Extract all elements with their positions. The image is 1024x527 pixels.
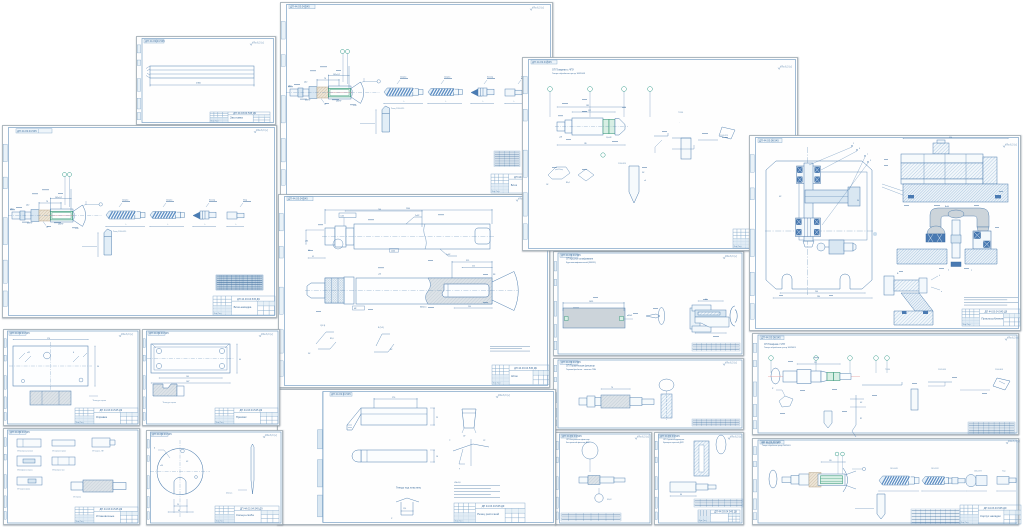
green insert bbox=[329, 88, 351, 97]
svg-text:Гнездо под пластину: Гнездо под пластину bbox=[396, 486, 422, 490]
svg-text:ОП Контрольная фиксатор: ОП Контрольная фиксатор bbox=[566, 438, 590, 441]
svg-text:Ra 6,3 (√): Ra 6,3 (√) bbox=[726, 361, 737, 364]
S5 parting tool bbox=[629, 166, 639, 203]
cone upper bbox=[351, 82, 361, 89]
upper shaft body bbox=[325, 224, 490, 249]
S7c left margin boxes bbox=[4, 438, 6, 519]
S7a plate bbox=[13, 346, 88, 386]
svg-text:а: а bbox=[971, 270, 972, 272]
svg-text:Ø0,02: Ø0,02 bbox=[607, 499, 612, 501]
svg-text:Ra 6,3 (√): Ra 6,3 (√) bbox=[1006, 143, 1017, 146]
svg-text:Фрезерно-отрезной ДИП: Фрезерно-отрезной ДИП bbox=[663, 441, 684, 444]
leader bbox=[82, 246, 97, 248]
svg-text:Термообработка - закалка ТВЧ: Термообработка - закалка ТВЧ bbox=[566, 369, 597, 371]
stop bushing bbox=[505, 89, 522, 96]
S4 left dim bbox=[305, 230, 307, 244]
S5 tool sketch 2 bbox=[578, 169, 594, 181]
S3 corner stamp bbox=[289, 5, 315, 9]
svg-text:Резец расточной: Резец расточной bbox=[477, 512, 499, 516]
S10 green seg2 bbox=[834, 373, 841, 381]
S8 finish mark bbox=[496, 394, 510, 398]
sheet S11 paper bbox=[752, 438, 1019, 525]
S6 bottom bearing block bbox=[796, 218, 821, 237]
svg-text:16°: 16° bbox=[546, 184, 549, 186]
svg-text:ОП Сверлильн прихват: ОП Сверлильн прихват bbox=[52, 451, 66, 453]
S5 finish mark bbox=[778, 65, 792, 69]
S11 drill 2 bbox=[922, 477, 952, 485]
cone lower bbox=[351, 97, 361, 103]
S11 dim bbox=[821, 461, 845, 463]
svg-text:б: б bbox=[948, 270, 949, 272]
S7c title block bbox=[75, 507, 138, 523]
dim sleeve bbox=[39, 202, 61, 204]
svg-text:Ra 6,3 (√): Ra 6,3 (√) bbox=[262, 333, 273, 336]
svg-text:70: 70 bbox=[324, 78, 326, 80]
balloon 1 bbox=[340, 49, 344, 53]
S5 cone end bbox=[615, 119, 625, 136]
dimension text clutter bbox=[308, 215, 488, 312]
S5 dim1 bbox=[572, 111, 615, 113]
S10 dim bbox=[797, 363, 840, 365]
svg-text:1х45°: 1х45° bbox=[446, 254, 451, 256]
svg-text:ДП 44.03.04.545: ДП 44.03.04.545 bbox=[660, 434, 680, 438]
svg-text:Ra 6,3 (√): Ra 6,3 (√) bbox=[1008, 336, 1019, 339]
S10 corner stamp bbox=[760, 336, 784, 340]
S11 parting tool bbox=[877, 494, 885, 519]
S10 sketch vertical bbox=[824, 411, 832, 428]
S11 sleeve bbox=[818, 474, 845, 486]
svg-text:ОП Отрезной фрезеров.: ОП Отрезной фрезеров. bbox=[663, 438, 685, 441]
S9b finish mark bbox=[723, 361, 737, 365]
svg-text:2102-0055: 2102-0055 bbox=[938, 369, 946, 371]
S10 shaft bbox=[783, 370, 827, 384]
svg-text:Сверло: Сверло bbox=[166, 199, 172, 201]
S4 dim extra bbox=[345, 210, 422, 212]
S7d finish mark bbox=[263, 434, 277, 438]
svg-text:Сверло: Сверло bbox=[444, 76, 450, 78]
svg-text:М24х1,5: М24х1,5 bbox=[420, 307, 427, 309]
S9b frame bbox=[558, 360, 742, 428]
S5 tool sketch 1 bbox=[548, 167, 570, 179]
socket section (gray) bbox=[426, 278, 493, 304]
cut bar bbox=[670, 482, 716, 492]
S8 dim h bbox=[433, 408, 435, 425]
S9d dim bbox=[670, 495, 696, 497]
S3 finish mark bbox=[530, 6, 544, 10]
S4 frame bbox=[285, 197, 548, 386]
svg-text:⌀56: ⌀56 bbox=[378, 273, 381, 276]
S7d needle bbox=[251, 444, 254, 494]
S10 toolpath 1 bbox=[862, 382, 902, 385]
svg-text:105±0,2: 105±0,2 bbox=[333, 74, 340, 76]
fixture shaft bbox=[579, 395, 654, 408]
feed arrow bbox=[97, 233, 99, 257]
S11 stop part bbox=[997, 477, 1016, 485]
svg-text:Ra 6,3 (√): Ra 6,3 (√) bbox=[499, 394, 510, 397]
svg-text:185: 185 bbox=[586, 105, 589, 107]
balloon 1 bbox=[62, 172, 66, 176]
S5 frame bbox=[529, 60, 796, 249]
svg-text:Ra 6,3 (√): Ra 6,3 (√) bbox=[533, 6, 544, 9]
sleeve bbox=[51, 209, 74, 222]
svg-text:Изм Лист: Изм Лист bbox=[493, 383, 501, 385]
svg-text:Круглошлифовальный (3М151): Круглошлифовальный (3М151) bbox=[566, 261, 596, 264]
svg-text:60°: 60° bbox=[860, 402, 863, 404]
S7c part b2 bbox=[52, 457, 75, 465]
svg-text:ДП 44.03.04.545: ДП 44.03.04.545 bbox=[532, 60, 552, 64]
S9a operations table bbox=[692, 343, 740, 351]
svg-text:Изм Лист: Изм Лист bbox=[961, 522, 969, 524]
S4 left margin boxes bbox=[279, 213, 283, 376]
S9a finish mark bbox=[723, 255, 737, 259]
S8 seat detail bbox=[396, 498, 419, 502]
dimension text clutter bbox=[780, 358, 987, 414]
sheet S9b paper bbox=[553, 358, 744, 430]
datum circle bbox=[99, 203, 102, 206]
svg-text:2100-0409: 2100-0409 bbox=[995, 369, 1003, 371]
S9d left margin boxes bbox=[655, 441, 657, 519]
S11 chuck ellipse bbox=[769, 470, 777, 488]
S6 plate dim bbox=[780, 292, 865, 294]
S8 insert plate bbox=[462, 409, 476, 428]
S6 stem bottom bbox=[951, 262, 961, 267]
centre rest bbox=[646, 314, 660, 318]
drill 2 (spiral flutes) bbox=[150, 211, 185, 218]
S7a title block bbox=[75, 408, 138, 424]
svg-text:Оправка: Оправка bbox=[96, 415, 108, 419]
S11 chuck steps bbox=[782, 474, 809, 485]
svg-text:ДП 44.03.04.545: ДП 44.03.04.545 bbox=[145, 39, 165, 43]
svg-text:Ra 6,3 (√): Ra 6,3 (√) bbox=[253, 41, 264, 44]
sheet S6 paper bbox=[749, 135, 1021, 331]
S2 frame bbox=[9, 128, 275, 316]
S6 fork funnel bbox=[977, 227, 989, 238]
S10 red centreline bbox=[768, 376, 860, 378]
sheet S7c paper bbox=[3, 428, 140, 525]
svg-text:Сверло: Сверло bbox=[122, 199, 128, 201]
svg-text:ДП 44.03.04.545: ДП 44.03.04.545 bbox=[562, 434, 582, 438]
S7d leader bbox=[158, 450, 170, 458]
svg-text:ОП Токарная с ЧПУ: ОП Токарная с ЧПУ bbox=[552, 69, 574, 72]
S7c long shaft bbox=[71, 480, 126, 492]
S11 tan clamp bbox=[809, 473, 821, 488]
sheet S7d paper bbox=[146, 430, 283, 525]
tolerance frame bbox=[339, 213, 356, 218]
svg-text:60: 60 bbox=[239, 359, 241, 361]
svg-text:ОП Отрезная: ОП Отрезная bbox=[73, 497, 81, 499]
green wheel marks bbox=[565, 317, 569, 321]
drill 2 (spiral flutes) bbox=[428, 88, 463, 95]
S11 ball nose tool bbox=[966, 475, 987, 487]
svg-text:2360: 2360 bbox=[196, 83, 202, 85]
S5 corner stamp bbox=[531, 60, 557, 64]
parting tool bbox=[104, 229, 112, 255]
svg-text:12,4: 12,4 bbox=[403, 508, 406, 510]
svg-text:Сверло: Сверло bbox=[400, 76, 406, 78]
S11 cone arc bbox=[843, 468, 848, 492]
svg-text:ДП 44.03.04.545: ДП 44.03.04.545 bbox=[149, 331, 169, 335]
S8 title block bbox=[454, 503, 525, 523]
sheet S8 paper bbox=[277, 389, 556, 525]
S5 datum balloon bbox=[601, 153, 605, 157]
svg-text:1:20: 1:20 bbox=[353, 105, 357, 107]
S1 title block bbox=[210, 112, 270, 123]
svg-text:Блок: Блок bbox=[511, 183, 518, 187]
S6 corner stamp bbox=[758, 138, 782, 142]
S2 overlay operations table bbox=[216, 275, 263, 290]
S5 green segment 1 bbox=[603, 120, 609, 134]
indicator circle bbox=[595, 494, 603, 502]
travel arrow bbox=[150, 226, 184, 228]
S8 dim1 bbox=[374, 398, 417, 400]
S2 title block bbox=[213, 296, 275, 315]
svg-text:А-А: А-А bbox=[945, 205, 949, 208]
S5 toolpath line bbox=[654, 133, 668, 136]
svg-text:ДП 44.03.04.545 Д9: ДП 44.03.04.545 Д9 bbox=[237, 298, 260, 301]
drill 1 (spiral flutes) bbox=[106, 211, 145, 219]
travel arrow bbox=[193, 226, 216, 228]
S6 grease assembly bbox=[817, 243, 825, 251]
S5 balloon 4 bbox=[648, 87, 653, 92]
sheet S1 paper bbox=[136, 36, 276, 125]
S11 frame bbox=[758, 440, 1017, 523]
svg-text:105: 105 bbox=[829, 460, 832, 462]
svg-text:Зенкер: Зенкер bbox=[487, 76, 493, 78]
S10 sketch 1 bbox=[779, 396, 793, 407]
S7c part a3 bbox=[92, 438, 115, 447]
svg-text:R1,6: R1,6 bbox=[330, 338, 334, 340]
S5 workpiece shaft bbox=[557, 118, 603, 135]
svg-text:ДП 44.03.04.545 Д9: ДП 44.03.04.545 Д9 bbox=[482, 505, 505, 508]
svg-text:30: 30 bbox=[857, 200, 859, 202]
S5 tailstock tool bbox=[681, 138, 691, 159]
svg-text:48: 48 bbox=[178, 510, 180, 512]
travel arrow bbox=[505, 103, 522, 105]
svg-text:Упор: Упор bbox=[243, 199, 247, 201]
S6 machine motor bbox=[933, 140, 949, 154]
svg-text:√Ra1,6: √Ra1,6 bbox=[454, 481, 461, 484]
svg-text:2320-2373: 2320-2373 bbox=[974, 471, 982, 473]
S7d note leader bbox=[238, 489, 247, 491]
sheet S9c paper bbox=[555, 432, 652, 525]
svg-text:30°: 30° bbox=[642, 172, 645, 174]
S7a left margin boxes bbox=[4, 339, 6, 420]
S9a dim2 bbox=[698, 300, 723, 302]
balloon leader bbox=[64, 177, 66, 206]
S6 plate dim2 bbox=[773, 297, 872, 299]
svg-text:R0,4: R0,4 bbox=[566, 182, 570, 184]
sheet S2 paper bbox=[2, 125, 277, 318]
svg-text:→: → bbox=[678, 122, 680, 124]
centre hole circle bbox=[333, 239, 343, 249]
svg-text:45°: 45° bbox=[779, 196, 782, 198]
svg-text:280: 280 bbox=[817, 296, 820, 298]
S6 left bearing dome bbox=[927, 226, 945, 234]
sheet S7b paper bbox=[142, 329, 280, 426]
S4 dim socket bbox=[452, 261, 492, 263]
blade ellipse bbox=[716, 435, 726, 454]
S6 top bearing block bbox=[797, 166, 821, 184]
saw blade bar bbox=[694, 441, 709, 476]
svg-text:70: 70 bbox=[611, 387, 613, 389]
svg-text:25: 25 bbox=[436, 417, 438, 419]
sheet S5 paper bbox=[522, 57, 798, 251]
S9c operations table bbox=[561, 513, 621, 521]
reamer bbox=[193, 211, 216, 219]
svg-text:7: 7 bbox=[867, 154, 868, 156]
svg-text:Изм Лист: Изм Лист bbox=[492, 191, 500, 193]
S9d frame bbox=[659, 434, 743, 523]
dim sleeve bbox=[317, 79, 339, 81]
svg-text:Токарн обрабатыв центр 16К20Ф3: Токарн обрабатыв центр 16К20Ф3 bbox=[552, 72, 586, 75]
red centreline bbox=[327, 92, 352, 94]
S7d left margin boxes bbox=[147, 440, 149, 520]
svg-text:I (5:1): I (5:1) bbox=[320, 325, 326, 327]
leader bbox=[360, 123, 375, 125]
svg-text:Изм Лист: Изм Лист bbox=[963, 324, 971, 326]
ground bar (gray) bbox=[563, 308, 625, 328]
svg-text:112: 112 bbox=[588, 110, 591, 112]
svg-text:Токарн обрабатыв центр 16К20Ф3: Токарн обрабатыв центр 16К20Ф3 bbox=[762, 444, 791, 447]
chuck clamp (hatched) bbox=[317, 87, 329, 98]
sheet S9d paper bbox=[654, 432, 744, 525]
chuck clamp (hatched) bbox=[39, 210, 51, 221]
svg-text:185: 185 bbox=[584, 143, 587, 145]
S2 left margin boxes bbox=[3, 144, 7, 306]
S9a dim bbox=[563, 302, 624, 304]
S7a knurled bar bbox=[30, 391, 71, 405]
S7b dim2 bbox=[151, 382, 230, 384]
S10 balloon 5 bbox=[885, 356, 890, 361]
S8 cutter 1 tip bbox=[347, 408, 361, 430]
S7a corner stamp bbox=[9, 331, 30, 335]
svg-text:240: 240 bbox=[815, 291, 818, 293]
socket cavity bbox=[442, 284, 489, 297]
svg-text:Изм Лист: Изм Лист bbox=[699, 520, 707, 522]
svg-text:24: 24 bbox=[177, 504, 179, 506]
detail view I bbox=[316, 332, 334, 344]
svg-text:Изм Лист: Изм Лист bbox=[214, 313, 222, 315]
S10 left margin boxes bbox=[753, 343, 757, 429]
S7a corner marks bbox=[19, 353, 87, 359]
svg-text:30°: 30° bbox=[308, 353, 311, 355]
svg-text:ДП 44.03.04.545 Д9: ДП 44.03.04.545 Д9 bbox=[984, 507, 1007, 510]
S9b dim bbox=[601, 388, 630, 390]
svg-text:Блок-насадка: Блок-насадка bbox=[234, 305, 252, 309]
svg-text:ДП 44.03.04.545: ДП 44.03.04.545 bbox=[10, 331, 30, 335]
S10 balloon 3 bbox=[848, 356, 853, 361]
svg-text:ДП 44.03.04.545: ДП 44.03.04.545 bbox=[561, 253, 581, 257]
S3 operations table bbox=[494, 151, 520, 167]
locator ellipse bbox=[659, 379, 674, 391]
S4 corner stamp bbox=[287, 197, 313, 201]
S7c part b1 bbox=[17, 456, 41, 466]
svg-text:Прихват: Прихват bbox=[236, 415, 247, 419]
svg-text:ОП Токарная - УВП: ОП Токарная - УВП bbox=[92, 451, 104, 453]
S4 finish mark bbox=[516, 197, 530, 201]
svg-text:Шток: Шток bbox=[511, 374, 518, 378]
S7b frame bbox=[147, 331, 279, 424]
gauge shaft bbox=[579, 476, 625, 485]
S9c left margin boxes bbox=[556, 441, 558, 519]
S11 green insert bbox=[821, 476, 843, 484]
S7b corner holes bbox=[156, 348, 224, 368]
svg-text:б: б bbox=[939, 275, 940, 277]
svg-text:Установочные: Установочные bbox=[96, 514, 115, 518]
S4 dim socket2 bbox=[462, 267, 492, 269]
svg-text:ДП 44.03.04.545: ДП 44.03.04.545 bbox=[331, 392, 351, 396]
S3 left margin boxes bbox=[281, 22, 285, 186]
svg-text:45: 45 bbox=[312, 256, 314, 258]
svg-text:ДП 44.03.04.545 Д9: ДП 44.03.04.545 Д9 bbox=[514, 367, 537, 370]
S8 detail sketch bbox=[453, 444, 489, 451]
S11 corner stamp bbox=[760, 440, 784, 444]
svg-text:Ra 6,3 (√): Ra 6,3 (√) bbox=[266, 434, 277, 437]
svg-text:Изм Лист: Изм Лист bbox=[211, 121, 219, 123]
S6 spindle shaft bbox=[804, 163, 813, 241]
dim over insert bbox=[51, 198, 72, 200]
S7a dim w bbox=[13, 339, 88, 341]
svg-text:Ra 6,3 (√): Ra 6,3 (√) bbox=[731, 435, 742, 438]
S1 left margin boxes bbox=[137, 45, 141, 120]
svg-text:ДП 44.03.04.545: ДП 44.03.04.545 bbox=[290, 5, 310, 9]
svg-text:ДП 44.03.04.545: ДП 44.03.04.545 bbox=[17, 129, 37, 133]
svg-text:ДП 44.03.04.545: ДП 44.03.04.545 bbox=[288, 197, 308, 201]
S6 frame bbox=[756, 138, 1019, 329]
S7d title block bbox=[215, 506, 279, 523]
S6 handle oval bbox=[948, 210, 964, 218]
svg-text:ДП 44.03.04.545: ДП 44.03.04.545 bbox=[759, 138, 779, 142]
S7d keyhole slot bbox=[174, 478, 186, 495]
svg-text:45°: 45° bbox=[390, 349, 393, 351]
S5 title block bbox=[733, 229, 794, 248]
S7c frame bbox=[8, 430, 139, 523]
S9a left margin boxes bbox=[554, 262, 557, 350]
S6 carriage outline bbox=[799, 172, 867, 240]
bar blank part bbox=[146, 66, 254, 78]
S10 quill bbox=[911, 389, 918, 410]
datum circle bbox=[377, 80, 380, 83]
S7d slot dim bbox=[174, 505, 187, 507]
S7d corner stamp bbox=[151, 432, 172, 436]
S9d operations table bbox=[694, 499, 743, 507]
lower shaft body bbox=[307, 277, 492, 304]
S10 detail cone bbox=[852, 395, 856, 437]
drill 1 (spiral flutes) bbox=[384, 88, 423, 96]
svg-text:Кольцо-скоба: Кольцо-скоба bbox=[236, 513, 254, 517]
feed arrow bbox=[375, 110, 377, 134]
svg-text:ДП 44.03.04.545 Д9: ДП 44.03.04.545 Д9 bbox=[714, 510, 737, 513]
dimension text clutter bbox=[552, 99, 728, 170]
S5 side tool bbox=[719, 127, 735, 139]
svg-text:Ra 6,3 (√): Ra 6,3 (√) bbox=[638, 435, 649, 438]
sheet S7a paper bbox=[3, 329, 140, 426]
S7d small hole bbox=[181, 449, 185, 453]
S1 finish mark bbox=[250, 41, 264, 45]
parting tool bbox=[382, 106, 390, 132]
S5 left margin boxes bbox=[523, 76, 527, 239]
red centreline bbox=[49, 215, 74, 217]
S7a leader2 bbox=[73, 356, 79, 362]
chuck arbor bbox=[290, 87, 317, 99]
svg-text:Упор: Упор bbox=[1002, 471, 1006, 473]
svg-text:4: 4 bbox=[859, 148, 860, 150]
S6 lower nut bbox=[803, 241, 814, 247]
svg-text:Изм Лист: Изм Лист bbox=[76, 422, 84, 424]
cone upper bbox=[73, 205, 83, 212]
cone lower bbox=[73, 220, 83, 226]
S10 arrow bbox=[960, 389, 990, 391]
